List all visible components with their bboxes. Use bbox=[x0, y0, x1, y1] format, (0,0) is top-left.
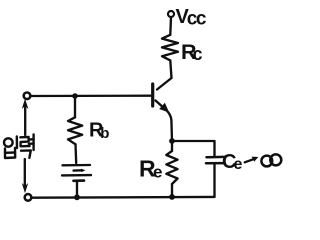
svg-text:c: c bbox=[193, 44, 203, 64]
svg-text:b: b bbox=[100, 125, 109, 142]
svg-text:e: e bbox=[153, 163, 162, 182]
svg-text:cc: cc bbox=[187, 8, 207, 29]
svg-text:e: e bbox=[234, 156, 243, 173]
